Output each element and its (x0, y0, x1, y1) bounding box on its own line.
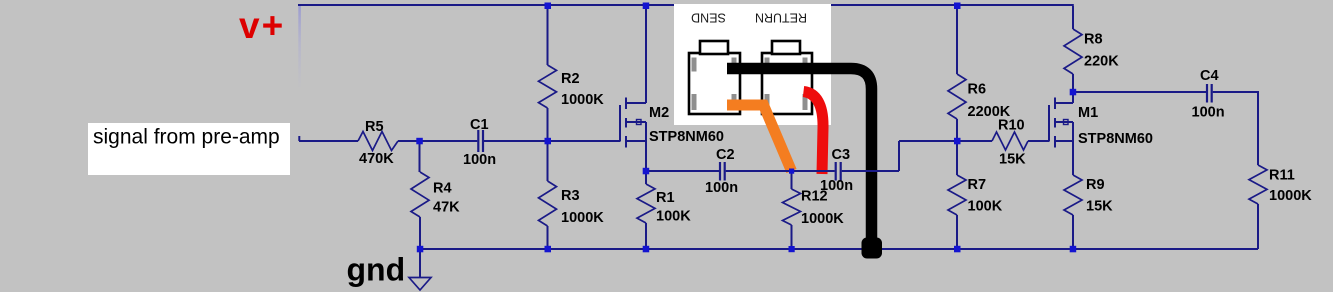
capacitor C3 (836, 162, 841, 181)
junction R5 / R4 / C1 (416, 138, 423, 145)
resistor R12 (783, 189, 801, 225)
junction v+ rail / M2 drain (643, 3, 650, 10)
wire M1 source to R9 (1072, 141, 1074, 175)
svg-text:100n: 100n (820, 178, 853, 194)
ground symbol (409, 278, 431, 291)
svg-text:RETURN: RETURN (755, 11, 807, 25)
junction R9 / gnd rail (1070, 246, 1077, 253)
wire R5 to C1 (398, 140, 477, 142)
svg-text:1000K: 1000K (1269, 188, 1312, 204)
svg-text:M1: M1 (1078, 105, 1098, 121)
junction C1 / R2 / R3 / M2 gate (545, 138, 552, 145)
wire signal row left (299, 140, 358, 142)
junction R7 / gnd rail (954, 246, 961, 253)
svg-text:100K: 100K (656, 209, 691, 225)
junction R6 / R7 / R10 (954, 138, 961, 145)
svg-text:C3: C3 (832, 147, 851, 163)
blue circuit (299, 6, 1258, 278)
node v+ faded stub wire (298, 6, 301, 91)
svg-text:signal from pre-amp: signal from pre-amp (93, 126, 280, 149)
svg-text:100n: 100n (1192, 105, 1225, 121)
resistor R5 (358, 132, 398, 151)
resistor R1 (637, 184, 655, 223)
resistor R10 (992, 132, 1028, 150)
wire top v+ rail (298, 4, 1074, 6)
resistor R2 (539, 65, 557, 108)
wire C2 to C3 (726, 170, 835, 172)
junction R8 / M1 drain / C4 (1070, 89, 1077, 96)
capacitor C1 (478, 130, 483, 152)
junction v+ rail / R6 (954, 3, 961, 10)
resistor R3 (539, 181, 557, 226)
svg-text:R3: R3 (561, 188, 580, 204)
svg-text:100K: 100K (968, 199, 1003, 215)
svg-text:1000K: 1000K (801, 211, 844, 227)
wire R11 bottom lead (1257, 204, 1259, 249)
wire jog to R10 (899, 140, 992, 142)
wire R6 column (956, 6, 958, 74)
svg-text:100n: 100n (705, 180, 738, 196)
svg-text:R11: R11 (1269, 168, 1295, 184)
wire M1 drain row (1073, 91, 1206, 93)
wire gnd stub (419, 249, 421, 278)
svg-text:STP8NM60: STP8NM60 (1078, 131, 1153, 147)
junction R4 / gnd (417, 246, 424, 253)
svg-text:R6: R6 (968, 82, 987, 98)
resistor R8 (1064, 29, 1082, 74)
jack J1 SEND (689, 41, 740, 114)
wire R12 column (791, 171, 793, 189)
svg-text:R9: R9 (1086, 177, 1105, 193)
svg-text:R7: R7 (968, 177, 987, 193)
wire ground row (420, 248, 1258, 250)
FX loop box (SEND/RETURN pedal insert) (674, 4, 831, 125)
svg-text:R1: R1 (656, 190, 675, 206)
jack J2 RETURN (762, 41, 812, 114)
svg-text:15K: 15K (1086, 199, 1113, 215)
wire R8 column (1072, 6, 1074, 29)
svg-text:R2: R2 (561, 71, 580, 87)
transistor M2 (620, 98, 646, 148)
resistor R4 (411, 172, 429, 217)
capacitor C4 (1207, 84, 1212, 103)
node input stub (298, 136, 300, 141)
svg-text:C1: C1 (470, 117, 489, 133)
svg-text:SEND: SEND (691, 11, 726, 25)
svg-text:R8: R8 (1084, 32, 1103, 48)
black cable from SEND jack tip (727, 69, 872, 243)
wire R3 column (547, 141, 549, 181)
junction v+ rail / R2 (545, 3, 552, 10)
transistor M1 (1049, 98, 1073, 148)
wire jog up (898, 141, 900, 171)
wire source row M2 (646, 170, 719, 172)
junction C2 / R12 / C3 (789, 169, 794, 174)
svg-text:R5: R5 (365, 119, 384, 135)
wire M2 source to R1 (645, 141, 647, 184)
svg-text:1000K: 1000K (561, 210, 604, 226)
orange patch cable from SEND jack (727, 105, 792, 171)
svg-text:C2: C2 (716, 147, 735, 163)
svg-text:470K: 470K (359, 151, 394, 167)
svg-text:STP8NM60: STP8NM60 (649, 129, 724, 145)
svg-text:v+: v+ (239, 5, 285, 46)
junction M2 source / R1 / C2 (643, 168, 650, 175)
wire C3 to jog (842, 170, 899, 172)
red patch cable to RETURN jack (804, 92, 824, 175)
resistor R6 (948, 74, 966, 119)
input label box (88, 123, 290, 175)
svg-text:1000K: 1000K (561, 92, 604, 108)
resistor R7 (948, 175, 966, 215)
junction R1 / gnd rail (643, 246, 650, 253)
junction R3 / gnd rail (545, 246, 552, 253)
svg-text:R4: R4 (433, 181, 452, 197)
svg-text:100n: 100n (463, 152, 496, 168)
wire R10 to M1 gate (1028, 140, 1049, 142)
resistor R9 (1064, 175, 1082, 215)
wire R4 column (419, 141, 421, 172)
junction R12 / gnd rail (789, 246, 795, 252)
capacitor C2 (720, 162, 725, 181)
svg-text:220K: 220K (1084, 54, 1119, 70)
wire M2 drain column (645, 6, 647, 103)
wire R7 column (956, 141, 958, 175)
svg-text:gnd: gnd (347, 252, 406, 288)
wire C1 to M2 gate (484, 140, 620, 142)
svg-text:R10: R10 (998, 118, 1025, 134)
svg-text:47K: 47K (433, 200, 460, 216)
wire C4 to R11 (1213, 92, 1258, 165)
svg-text:C4: C4 (1200, 68, 1219, 84)
black cable solder blob (862, 238, 883, 259)
svg-text:15K: 15K (999, 152, 1026, 168)
wire R2 column (547, 6, 549, 65)
svg-text:M2: M2 (649, 105, 669, 121)
resistor R11 (1249, 165, 1267, 204)
